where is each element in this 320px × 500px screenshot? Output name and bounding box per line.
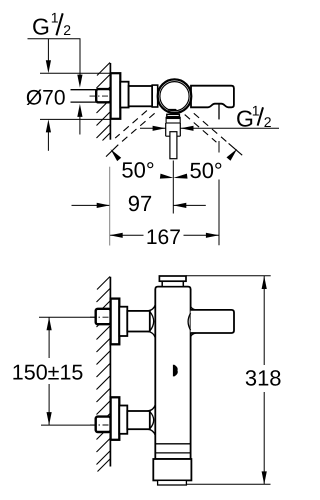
svg-text:50°: 50° [121, 158, 154, 183]
arrowhead Ø70 down [46, 60, 51, 73]
lower union nut [96, 417, 111, 432]
wall extension line gray [109, 167, 111, 246]
arrowhead 167 left [110, 233, 123, 238]
arrowhead 167 right [206, 233, 219, 238]
svg-text:1: 1 [252, 103, 260, 119]
lever handle (top view, pointing right) [191, 86, 234, 108]
mixer body vertical [155, 287, 190, 459]
arrowhead spout G1/2 left-pointing [181, 126, 194, 131]
svg-text:150±15: 150±15 [12, 360, 84, 384]
upper union nut [96, 309, 111, 324]
G 1/2 top-left leader line [28, 39, 81, 76]
dimension 318 line [263, 276, 265, 365]
dimension 97 line left [72, 204, 110, 206]
arrowhead 150±15 down [47, 412, 52, 425]
arrowhead spout G1/2 right-pointing [153, 126, 166, 131]
swivel ray left 50° dashed [118, 113, 154, 144]
body ring line upper [155, 443, 190, 445]
dimension 318 extension line top [186, 275, 271, 277]
Ø70 extension line top [40, 72, 110, 74]
svg-text:2: 2 [63, 22, 71, 38]
upper inlet pipe [127, 311, 150, 332]
swivel ray right 50° dashed [194, 113, 229, 143]
G 1/2 right dim shaft underline [181, 127, 280, 129]
wall line (top view) [109, 63, 111, 140]
lower pipe-body junction arc [150, 412, 154, 429]
label 97 [123, 196, 159, 213]
arrowhead 50° arc center right [173, 174, 187, 179]
spout inner stem [170, 132, 177, 159]
lower cone piece [119, 406, 127, 434]
svg-text:50°: 50° [189, 158, 222, 183]
dimension 150±15 extension line lower [41, 424, 96, 426]
svg-text:97: 97 [128, 191, 152, 216]
lower junction fillet bottom [148, 429, 156, 436]
arrowhead 97 left [97, 203, 110, 208]
label 167 [144, 228, 184, 245]
arrowhead 318 up [262, 276, 267, 289]
spout outer stem [165, 123, 167, 136]
swivel ray right companion dashed [185, 115, 217, 143]
upper junction fillet bottom [148, 332, 156, 339]
bottom outlet lip [158, 480, 187, 485]
dimension 97 line right [173, 204, 206, 206]
bottom outlet [153, 459, 191, 480]
body ring line lower [155, 452, 190, 454]
arrowhead Ø70 up [46, 119, 51, 132]
upper escutcheon rosette [111, 299, 120, 345]
spout collar flange [167, 114, 180, 116]
arrowhead 97 right [173, 203, 186, 208]
upper pipe centerline dash-dot [90, 316, 111, 318]
swivel ray left companion dashed [115, 111, 147, 139]
spout center extension line [172, 161, 174, 214]
svg-text:G: G [32, 13, 50, 39]
arrowhead 50° arc left end [111, 149, 122, 161]
arrowhead 318 down [262, 471, 267, 484]
arm junction fillet top [191, 306, 196, 310]
supply pipe behind wall [71, 90, 97, 102]
body tube [129, 86, 153, 106]
ring before cartridge [152, 85, 158, 107]
arrowhead G1/2 left up [77, 104, 82, 117]
dimension 150±15 extension line upper [39, 316, 96, 318]
svg-text:1: 1 [51, 10, 59, 26]
union nut with G 1/2 thread (top view) [96, 89, 110, 102]
dimension 167 line [110, 234, 219, 236]
Ø70 arrow shaft bottom [47, 131, 49, 151]
cartridge dome inner circle [160, 82, 189, 111]
wall line (front view) [109, 277, 111, 467]
Ø70 extension line bottom [40, 118, 110, 120]
dome slot bar [168, 109, 177, 111]
top cap neck [162, 281, 183, 286]
cartridge dome outer circle [158, 79, 192, 113]
outlet center extension line [218, 104, 220, 120]
pipe centerline dash-dot (top view) [90, 95, 111, 97]
wall hatching (top view) [97, 63, 111, 141]
label 50° left [120, 160, 156, 179]
svg-text:167: 167 [146, 226, 181, 249]
dimension 150±15 line [48, 317, 50, 358]
spout collar ring [166, 117, 180, 123]
svg-text:2: 2 [264, 114, 272, 130]
svg-text:Ø70: Ø70 [26, 86, 66, 109]
upper junction fillet top [148, 305, 156, 311]
arrowhead 150±15 up [47, 317, 52, 330]
label 50° right [190, 159, 223, 180]
swivel ray left solid end [106, 145, 118, 157]
lower junction fillet top [148, 405, 156, 412]
upper pipe-body junction arc [150, 312, 154, 332]
arrowhead G1/2 left down [77, 75, 82, 88]
dimension 318 extension line bottom [186, 483, 270, 485]
arm junction fillet bottom [191, 333, 196, 337]
wall hatching (front view) [97, 277, 111, 472]
arrowhead 50° arc center left [160, 174, 174, 179]
G 1/2 lower arrow shaft [79, 115, 81, 135]
lower pipe centerline dash-dot [90, 424, 111, 426]
svg-text:318: 318 [245, 365, 282, 390]
upper cone piece [119, 307, 127, 336]
lower escutcheon rosette [111, 397, 120, 440]
arrowhead 50° arc right end [227, 149, 238, 161]
swivel ray right solid end [229, 143, 243, 155]
Ø70 arrow shaft top [47, 39, 49, 63]
G 1/2 right dim shaft left [140, 127, 166, 129]
arm-body junction arc [188, 313, 191, 330]
lower inlet pipe [127, 411, 150, 429]
top cap plate [159, 276, 186, 281]
shower outlet arm [191, 310, 234, 333]
body hub [120, 82, 128, 108]
diverter mark on body [173, 365, 178, 377]
escutcheon rosette Ø70 (top view) [111, 73, 121, 119]
